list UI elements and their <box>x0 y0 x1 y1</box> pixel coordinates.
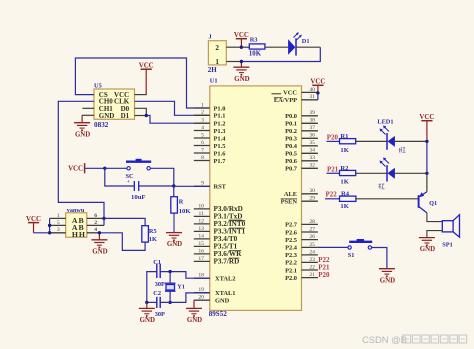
yanwu letters row3 <box>72 230 85 239</box>
LED D1 <box>288 32 302 56</box>
wire R to ground <box>173 213 175 233</box>
U1 pin 21 stub <box>302 277 318 279</box>
U1 pin 33 number <box>309 155 315 161</box>
wire U5 GND pin <box>82 114 94 116</box>
yanwu pin2 number <box>94 220 97 226</box>
watermark CSDN <box>362 334 467 345</box>
junction dot node A <box>103 167 106 170</box>
U5 pin name CS <box>99 91 108 99</box>
svg-text:1: 1 <box>57 213 60 219</box>
svg-text:14: 14 <box>198 233 204 239</box>
junction dot J pin1/GND <box>240 60 243 63</box>
yanwu pin5 number <box>57 220 60 226</box>
svg-text:VCC: VCC <box>234 32 249 39</box>
wire VCC node to R3 <box>241 46 249 48</box>
U5 pin name GND <box>99 112 115 120</box>
svg-text:P2.0: P2.0 <box>285 275 297 282</box>
label SC <box>126 173 135 180</box>
value 10K of R <box>179 208 192 215</box>
power VCC at reset (rotated) <box>68 163 85 173</box>
svg-text:P1.2: P1.2 <box>214 121 226 128</box>
yanwu letters row2 <box>72 223 84 232</box>
wire top rail right <box>160 272 210 279</box>
wire node A down to capacitor <box>105 168 135 186</box>
U1 pin name P1.2 <box>214 121 226 128</box>
U1 pin name P2.4 <box>285 245 298 252</box>
svg-text:2: 2 <box>215 44 219 52</box>
svg-text:40: 40 <box>309 87 315 93</box>
U1 pin 34 stub <box>302 152 318 154</box>
svg-text:15: 15 <box>198 241 204 247</box>
svg-text:P1.6: P1.6 <box>214 150 227 157</box>
U1 pin 39 number <box>309 110 315 116</box>
svg-text:P0.6: P0.6 <box>285 158 298 165</box>
U1 pin 37 number <box>309 125 315 131</box>
U1 pin 18 XTAL2 stub <box>194 277 210 279</box>
U1 pin 23 stub <box>302 261 318 263</box>
yanwu pin4 number <box>94 227 97 233</box>
wire node B to RST <box>174 185 210 187</box>
svg-text:H: H <box>79 230 85 239</box>
value 30P of C1 <box>155 281 165 288</box>
svg-text:P1.7: P1.7 <box>214 158 227 165</box>
U1 pin 3 P1.2 stub <box>194 122 210 124</box>
label yanwu <box>67 207 85 214</box>
U1 pin name P3.5/T1 <box>214 243 238 251</box>
resistor R3 <box>249 44 265 49</box>
svg-text:P20: P20 <box>327 134 339 142</box>
power VCC at J <box>234 32 249 47</box>
label U5 <box>94 82 102 89</box>
U1 pin name P3.4/T0 <box>214 235 238 243</box>
wire U5 CS to P1.0 <box>75 58 209 108</box>
connector J <box>208 41 226 66</box>
wire U5 VCC pin <box>135 94 147 96</box>
wire SC to node B <box>150 168 174 186</box>
U1 pin 40 stub <box>302 91 318 93</box>
U1 pin 4 number <box>201 125 204 131</box>
svg-text:S1: S1 <box>348 252 355 259</box>
svg-text:P1.4: P1.4 <box>214 135 227 142</box>
label LED1 <box>377 119 393 126</box>
svg-text:VCC: VCC <box>310 79 325 86</box>
svg-text:24: 24 <box>309 249 315 255</box>
svg-text:27: 27 <box>309 226 315 232</box>
U1 pin 27 stub <box>302 231 318 233</box>
U1 pin name XTAL1 <box>215 290 235 297</box>
wire S1 to ground <box>372 248 387 269</box>
U1 pin 23 number <box>309 257 315 263</box>
U1 pin 26 number <box>309 234 315 240</box>
U1 pin 16 P3.6/WR stub <box>194 253 210 255</box>
yanwu pin3 stub <box>50 232 66 234</box>
svg-text:22: 22 <box>309 264 315 270</box>
svg-text:CSDN @B: CSDN @B <box>362 334 407 345</box>
wire VCC to node A <box>85 167 105 169</box>
junction dot VCC/R3 <box>240 46 243 49</box>
resistor R4 <box>340 196 356 201</box>
wire crystal bottom stem <box>169 291 171 302</box>
label R5 <box>149 228 157 235</box>
svg-text:Q1: Q1 <box>429 200 437 207</box>
U1 pin 14 number <box>198 233 204 239</box>
U1 pin 31 stub <box>302 99 318 101</box>
value 89S52 of U1 <box>209 310 227 318</box>
U1 pin name P2.1 <box>285 267 297 274</box>
svg-text:R5: R5 <box>149 228 157 235</box>
node P22 <box>326 191 338 199</box>
svg-text:P0.1: P0.1 <box>285 121 297 128</box>
U1 pin 14 P3.4/T0 stub <box>194 238 210 240</box>
svg-text:5: 5 <box>201 132 204 138</box>
svg-text:33: 33 <box>309 155 315 161</box>
svg-text:P2.6: P2.6 <box>285 229 298 236</box>
svg-text:89S52: 89S52 <box>209 310 227 318</box>
label U1 <box>210 78 218 85</box>
value 10uF <box>131 194 146 201</box>
sensor yanwu body <box>66 213 87 237</box>
capacitor C2 <box>157 297 160 308</box>
label Y1 <box>177 284 185 291</box>
LED LED1 red <box>380 126 395 150</box>
resistor R1 <box>340 139 356 144</box>
svg-text:P2.7: P2.7 <box>285 222 298 229</box>
value 1K of R2 <box>340 179 349 186</box>
svg-text:VCC: VCC <box>139 62 154 69</box>
svg-text:GND: GND <box>99 112 115 120</box>
U1 pin 10 number <box>198 203 204 209</box>
U1 pin 32 stub <box>302 167 318 169</box>
yanwu pin6 number <box>94 213 97 219</box>
svg-text:P2.5: P2.5 <box>285 237 297 244</box>
svg-text:R1: R1 <box>340 133 348 140</box>
svg-text:GND: GND <box>234 76 249 83</box>
ground at speaker <box>419 238 435 254</box>
svg-text:P1.3: P1.3 <box>214 128 226 135</box>
wire capacitor to node B <box>139 185 174 187</box>
svg-text:13: 13 <box>198 226 204 232</box>
svg-text:H: H <box>72 230 78 239</box>
U1 pin 24 stub <box>302 254 318 256</box>
U1 pin name P3.6/WR <box>214 250 243 258</box>
label lv green char <box>378 183 384 189</box>
junction dot pin5 feed <box>48 224 51 227</box>
wire U1 GND pin20 <box>194 300 210 308</box>
wire U5 CH1 stub <box>82 107 94 109</box>
U1 pin name P0.6 <box>285 158 298 165</box>
connector J label <box>208 34 212 41</box>
svg-text:D1: D1 <box>302 38 310 45</box>
U1 pin 37 stub <box>302 130 318 132</box>
U1 pin 30 stub <box>302 193 318 195</box>
U1 pin name P1.3 <box>214 128 226 135</box>
value 0832 of U5 <box>94 121 109 129</box>
U1 pin 38 stub <box>302 122 318 124</box>
svg-text:1K: 1K <box>340 203 349 210</box>
U1 pin name VCC <box>283 90 297 97</box>
power VCC at LED rail <box>419 114 434 141</box>
U1 pin 24 number <box>309 249 315 255</box>
svg-text:17: 17 <box>198 256 204 262</box>
value 1K of R5 <box>149 236 157 243</box>
svg-text:5: 5 <box>57 220 60 226</box>
stray bar left of VCC pin name <box>272 93 282 95</box>
U1 pin 17 P3.7/RD stub <box>194 260 210 262</box>
transistor Q1 <box>419 192 427 213</box>
U1 pin name EAVPP <box>274 97 297 104</box>
svg-text:P3.7/RD: P3.7/RD <box>214 258 240 266</box>
U1 pin 31 number <box>309 94 315 100</box>
svg-text:GND: GND <box>167 241 182 248</box>
svg-text:U1: U1 <box>210 78 218 85</box>
svg-text:21: 21 <box>309 272 315 278</box>
svg-text:P21: P21 <box>327 165 339 173</box>
ground at crystal <box>139 302 155 324</box>
speaker SP1 <box>442 215 459 237</box>
U1 pin 39 stub <box>302 115 318 117</box>
U1 pin 33 stub <box>302 160 318 162</box>
label R4 <box>341 191 350 198</box>
op-amp U5 body <box>94 89 135 119</box>
svg-text:XTAL1: XTAL1 <box>215 290 235 297</box>
label D1 <box>302 38 310 45</box>
wire P2.4 to S1 <box>318 246 348 248</box>
U1 pin 25 stub <box>302 246 318 248</box>
svg-text:8: 8 <box>201 155 204 161</box>
svg-text:XTAL2: XTAL2 <box>215 276 235 283</box>
U1 pin name P2.5 <box>285 237 297 244</box>
U1 pin name RST <box>214 184 227 191</box>
svg-text:ALE: ALE <box>284 191 297 198</box>
svg-text:P20: P20 <box>318 271 330 279</box>
U1 pin 15 number <box>198 241 204 247</box>
junction dot pin4 <box>98 231 101 234</box>
yanwu pin1 stub <box>50 217 66 219</box>
svg-text:32: 32 <box>309 163 315 169</box>
crystal Y1 <box>165 283 176 291</box>
svg-text:2: 2 <box>94 220 97 226</box>
svg-text:11: 11 <box>199 211 205 217</box>
label Q1 <box>429 200 437 207</box>
svg-text:+: + <box>127 179 130 185</box>
U1 pin name P1.7 <box>214 158 227 165</box>
wire U5 CH0 to sensor node <box>58 101 104 218</box>
U1 pin 22 number <box>309 264 315 270</box>
yanwu letters row1 <box>72 216 84 225</box>
junction dot LED1 rail <box>425 140 428 143</box>
svg-text:P22: P22 <box>326 191 338 199</box>
junction dot sensor output <box>102 217 105 220</box>
U1 pin name P1.1 <box>214 113 226 120</box>
U1 pin name P2.6 <box>285 229 298 236</box>
wire P20 to R1 <box>327 140 340 142</box>
value 10K of R3 <box>249 50 262 57</box>
node P20 <box>327 134 339 142</box>
svg-text:3: 3 <box>57 227 60 233</box>
wire J pin2 to VCC node <box>226 46 241 48</box>
U1 pin 21 number <box>309 272 315 278</box>
wire P21 to R2 <box>327 172 340 174</box>
U1 pin 16 number <box>198 248 204 254</box>
svg-text:D1: D1 <box>121 112 130 120</box>
U1 pin name P0.1 <box>285 121 297 128</box>
U1 pin name ALE <box>284 191 297 198</box>
yanwu pin5 stub <box>50 224 66 226</box>
power VCC at sensor <box>26 216 41 233</box>
svg-text:6: 6 <box>201 140 204 146</box>
U1 pin 4 P1.3 stub <box>194 130 210 132</box>
U1 pin name P3.1/TXD <box>214 213 243 221</box>
value 1K of R1 <box>340 147 349 154</box>
junction dot bottom rail right <box>168 301 171 304</box>
svg-text:28: 28 <box>309 219 315 225</box>
wire J pin1 to GND node <box>226 61 241 63</box>
U1 pin name P3.0/RxD <box>214 205 243 213</box>
svg-text:P1.1: P1.1 <box>214 113 226 120</box>
U1 pin 29 number <box>309 196 315 202</box>
svg-text:P2.1: P2.1 <box>285 267 297 274</box>
wire crystal top stem <box>169 272 171 284</box>
U1 pin 3 number <box>201 118 204 124</box>
wire P22 to R4 <box>325 198 339 200</box>
wire speaker return <box>427 231 442 238</box>
svg-text:R2: R2 <box>340 165 349 172</box>
resistor R2 <box>340 170 356 175</box>
yanwu pin2 stub <box>87 224 104 226</box>
U1 pin name P2.7 <box>285 222 298 229</box>
U1 pin 35 stub <box>302 145 318 147</box>
svg-text:3: 3 <box>201 118 204 124</box>
svg-text:R4: R4 <box>341 191 350 198</box>
svg-text:30P: 30P <box>155 281 165 288</box>
ground at sensor pin4 <box>91 233 107 256</box>
wire node B to R <box>173 186 175 197</box>
wire Q1 collector down <box>427 213 442 222</box>
junction dot pin3 feed <box>48 231 51 234</box>
U1 pin 1 P1.0 stub <box>194 107 210 109</box>
label R2 <box>340 165 349 172</box>
ground at R <box>166 233 182 249</box>
wire D1 loop to GND node <box>241 47 320 61</box>
svg-text:VCC: VCC <box>26 216 41 223</box>
svg-text:Y1: Y1 <box>177 284 185 291</box>
svg-text:P1.0: P1.0 <box>214 105 226 112</box>
node P20 at pin21 <box>318 271 330 279</box>
resistor R <box>171 197 178 213</box>
ground at J <box>233 62 249 83</box>
svg-text:10K: 10K <box>249 50 262 57</box>
U1 pin name P3.3/INT1 <box>214 228 246 236</box>
U1 pin 7 P1.6 stub <box>194 152 210 154</box>
svg-text:1K: 1K <box>149 236 157 243</box>
svg-text:R: R <box>179 199 184 206</box>
svg-text:VCC: VCC <box>68 166 83 173</box>
svg-text:C2: C2 <box>153 290 161 297</box>
svg-text:4: 4 <box>94 227 97 233</box>
U1 pin 15 P3.5/T1 stub <box>194 245 210 247</box>
U1 pin 28 stub <box>302 223 318 225</box>
svg-text:10K: 10K <box>179 208 192 215</box>
svg-text:1K: 1K <box>340 179 349 186</box>
svg-text:30: 30 <box>309 188 315 194</box>
U1 pin name P1.5 <box>214 143 226 150</box>
wire R3 to D1 <box>265 46 288 48</box>
svg-text:26: 26 <box>309 234 315 240</box>
svg-text:P0.7: P0.7 <box>285 166 298 173</box>
svg-text:R3: R3 <box>250 36 258 43</box>
svg-text:GND: GND <box>380 277 395 284</box>
U1 pin name P3.7/RD <box>214 258 240 266</box>
label R <box>179 199 184 206</box>
svg-text:LED1: LED1 <box>377 119 393 126</box>
svg-text:10: 10 <box>198 203 204 209</box>
wire top rail left <box>147 272 157 303</box>
svg-text:VCC: VCC <box>283 90 297 97</box>
U1 pin name XTAL2 <box>215 276 235 283</box>
svg-text:34: 34 <box>309 148 315 154</box>
U1 pin name P1.0 <box>214 105 226 112</box>
U5 pin name CLK <box>114 98 130 106</box>
wire pin6 to pin2 <box>103 218 105 225</box>
U1 pin 8 P1.7 stub <box>194 160 210 162</box>
junction dot bottom rail left <box>145 301 148 304</box>
svg-text:GND: GND <box>187 317 202 324</box>
U1 pin 11 P3.1/TXD stub <box>194 215 210 217</box>
svg-text:P2.3: P2.3 <box>285 252 297 259</box>
U1 pin 9 number <box>201 181 204 187</box>
label C1 <box>153 259 161 266</box>
U1 pin name P1.4 <box>214 135 227 142</box>
U1 pin 25 number <box>309 242 315 248</box>
U1 pin 1 number <box>201 102 204 108</box>
svg-text:23: 23 <box>309 257 315 263</box>
svg-text:P0.5: P0.5 <box>285 151 297 158</box>
U1 pin 12 P3.2/INT0 stub <box>194 223 210 225</box>
U1 pin 30 number <box>309 188 315 194</box>
svg-text:GND: GND <box>215 297 230 304</box>
svg-text:EA/VPP: EA/VPP <box>274 97 297 104</box>
ground at S1 <box>379 269 395 285</box>
wire output to R5 <box>104 218 145 225</box>
svg-text:4: 4 <box>201 125 204 131</box>
U1 pin 20 GND stub <box>194 299 210 301</box>
U1 pin name P3.2/INT0 <box>214 220 246 228</box>
U1 pin name P0.7 <box>285 166 298 173</box>
U1 pin 32 number <box>309 163 315 169</box>
svg-text:39: 39 <box>309 110 315 116</box>
wire U5 D1 <box>135 115 147 117</box>
U1 pin name PSEN <box>281 199 298 206</box>
svg-text:6: 6 <box>94 213 97 219</box>
U5 pin name CH1 <box>99 105 114 113</box>
U1 pin 10 P3.0/RxD stub <box>194 208 210 210</box>
svg-text:31: 31 <box>309 94 315 100</box>
svg-text:0832: 0832 <box>94 121 109 129</box>
U5 pin name D0 <box>121 105 130 113</box>
svg-text:SP1: SP1 <box>442 242 453 249</box>
U1 pin 34 number <box>309 148 315 154</box>
U1 pin 6 P1.5 stub <box>194 145 210 147</box>
wire D1 to P1.2 <box>146 116 210 124</box>
node P21 at pin22 <box>318 263 330 271</box>
U1 pin 38 number <box>309 118 315 124</box>
label SP1 <box>442 242 453 249</box>
U1 pin 9 RST stub <box>194 185 210 187</box>
wire bottom rail left <box>147 301 157 303</box>
svg-text:GND: GND <box>140 317 155 324</box>
svg-text:VCC: VCC <box>419 114 434 121</box>
svg-text:1: 1 <box>201 102 204 108</box>
